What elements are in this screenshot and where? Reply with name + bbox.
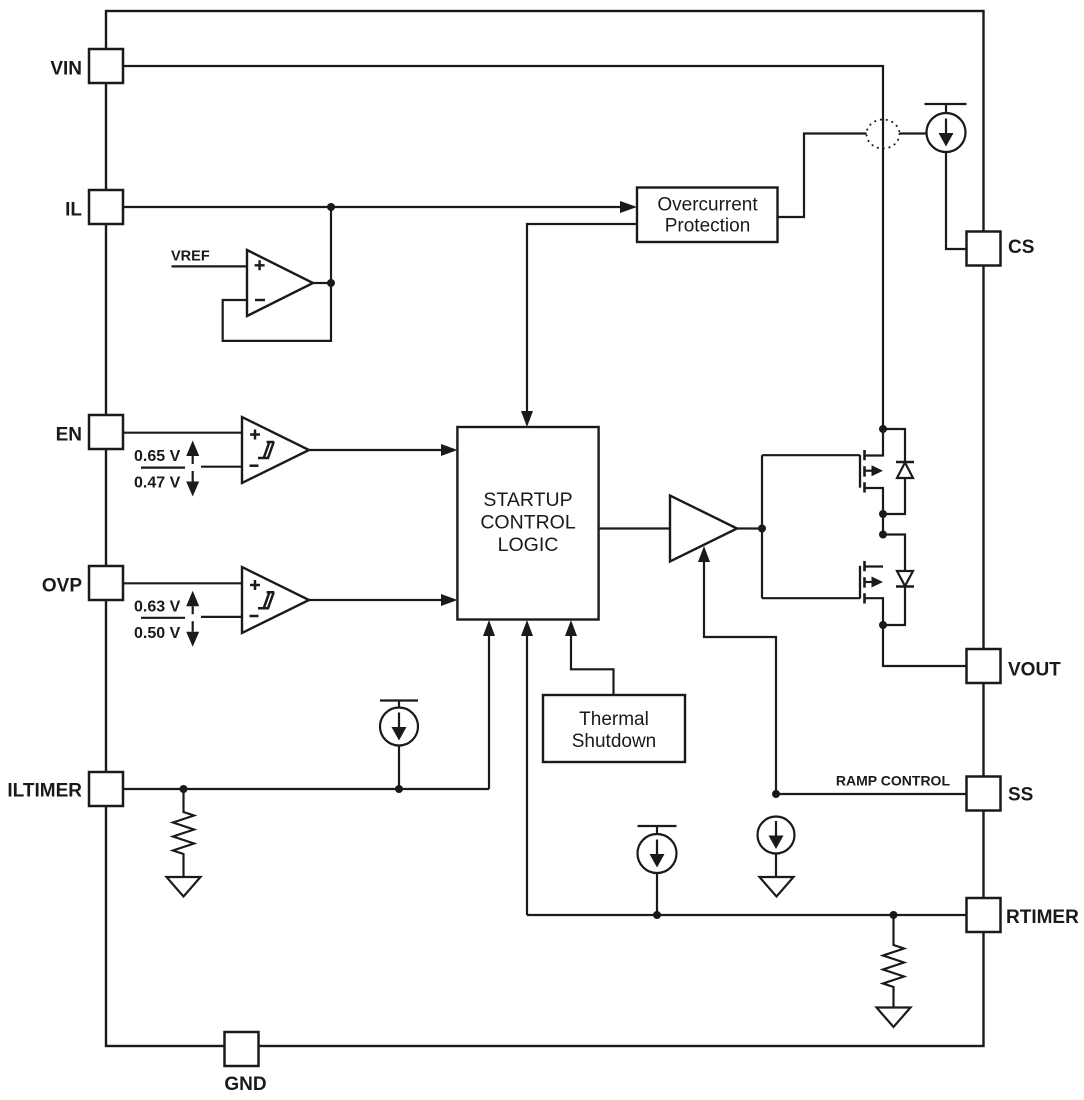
IC boundary — [106, 11, 984, 1046]
svg-text:OVP: OVP — [42, 576, 82, 597]
wire ILTIMER to startup logic — [123, 636, 489, 789]
wire ramp control to buffer — [704, 554, 776, 794]
current source I2 (ILTIMER) — [380, 701, 418, 708]
wire OVP threshold underline — [141, 617, 185, 619]
svg-text:RAMP CONTROL: RAMP CONTROL — [836, 773, 951, 789]
transistor Q1 (high-side FET) — [859, 455, 861, 488]
node gate drive junction — [758, 525, 766, 533]
svg-text:CS: CS — [1008, 237, 1034, 258]
comparator U3 (OVP) — [242, 567, 309, 633]
pin IL — [89, 190, 123, 224]
svg-text:RTIMER: RTIMER — [1006, 907, 1079, 928]
wire VIN to Q1 drain — [123, 66, 883, 456]
svg-text:0.50 V: 0.50 V — [134, 625, 181, 642]
wire EN comparator output to startup logic — [309, 449, 441, 451]
resistor R2 (RTIMER) — [883, 915, 904, 1008]
wire OVP to comparator + — [123, 582, 242, 584]
svg-text:0.65 V: 0.65 V — [134, 448, 181, 465]
pin ILTIMER — [89, 772, 123, 806]
wire IL to overcurrent protection — [123, 206, 620, 208]
wire overcurrent protection to startup logic top — [527, 224, 637, 411]
current source I3 (SS ramp) — [758, 817, 795, 854]
ground (below R1) — [167, 877, 201, 897]
arrow up (EN rising threshold) — [186, 441, 199, 457]
startup control logic block — [457, 427, 598, 620]
wire RTIMER — [527, 914, 967, 916]
pin CS — [967, 232, 1001, 266]
overcurrent protection block — [637, 188, 778, 243]
svg-text:IL: IL — [65, 200, 82, 221]
svg-text:VIN: VIN — [50, 59, 82, 80]
wire startup logic to gate buffer — [599, 527, 670, 529]
svg-text:Shutdown: Shutdown — [572, 731, 657, 752]
node U1 output junction — [327, 279, 335, 287]
pin EN — [89, 415, 123, 449]
svg-text:0.63 V: 0.63 V — [134, 598, 181, 615]
svg-text:Overcurrent: Overcurrent — [657, 195, 758, 216]
svg-text:VOUT: VOUT — [1008, 660, 1061, 681]
op-amp U1 (VREF buffer) — [247, 250, 313, 316]
ground (below R2) — [877, 1008, 911, 1028]
node ILTIMER resistor junction — [180, 785, 188, 793]
svg-text:CONTROL: CONTROL — [480, 512, 575, 534]
current source I4 (RTIMER) — [638, 826, 677, 834]
svg-text:GND: GND — [224, 1074, 266, 1095]
comparator U2 (EN) — [242, 417, 309, 483]
arrow down (OVP falling threshold) — [192, 621, 194, 632]
wire buffer output to gate node — [737, 527, 762, 529]
node RTIMER resistor junction — [890, 911, 898, 919]
wire OVP comparator - input — [201, 616, 242, 618]
wire EN threshold underline — [141, 467, 185, 469]
svg-text:SS: SS — [1008, 785, 1033, 806]
pin GND — [225, 1032, 259, 1066]
node crossover (dotted circle) — [867, 120, 900, 149]
wire U1 feedback loop — [223, 283, 331, 341]
node Q1 source — [879, 510, 887, 518]
svg-text:EN: EN — [56, 425, 82, 446]
pin SS — [967, 777, 1001, 811]
diode D2 (Q2 body diode) — [883, 535, 905, 626]
svg-text:ILTIMER: ILTIMER — [7, 781, 82, 802]
node Q2 source — [879, 531, 887, 539]
wire VREF input — [172, 265, 248, 267]
svg-text:Thermal: Thermal — [579, 709, 649, 730]
wire overcurrent protection output to current source — [778, 134, 927, 218]
wire OVP comparator output to startup logic — [309, 599, 441, 601]
transistor Q2 (low-side FET) — [859, 566, 861, 599]
wire EN to comparator + — [123, 432, 242, 434]
node ILTIMER current source junction — [395, 785, 403, 793]
svg-text:Protection: Protection — [665, 216, 751, 237]
svg-text:LOGIC: LOGIC — [498, 534, 559, 556]
arrow down (EN falling threshold) — [192, 471, 194, 482]
current source I1 (CS) — [925, 104, 967, 113]
pin RTIMER — [967, 898, 1001, 932]
wire U1 output to IL net — [313, 207, 331, 283]
pin VIN — [89, 49, 123, 83]
node RTIMER current source junction — [653, 911, 661, 919]
wire current source to CS pin — [946, 152, 967, 249]
node SS junction — [772, 790, 780, 798]
gate buffer U4 — [670, 496, 737, 562]
node Q1 drain — [879, 425, 887, 433]
svg-text:0.47 V: 0.47 V — [134, 475, 181, 492]
pin VOUT — [967, 649, 1001, 683]
svg-text:VREF: VREF — [171, 249, 210, 265]
wire thermal shutdown to startup logic — [571, 636, 614, 695]
ground (below I3) — [760, 877, 794, 897]
wire gate drive to Q1/Q2 gates — [762, 455, 860, 598]
node Q2 drain — [879, 621, 887, 629]
thermal shutdown block — [543, 695, 685, 762]
diode D1 (Q1 body diode) — [883, 429, 905, 514]
wire RTIMER to startup logic — [526, 636, 528, 915]
wire EN comparator - input — [201, 466, 242, 468]
pin OVP — [89, 566, 123, 600]
node IL junction — [327, 203, 335, 211]
resistor R1 (ILTIMER) — [173, 789, 194, 877]
svg-text:STARTUP: STARTUP — [483, 489, 572, 511]
arrow up (OVP rising threshold) — [186, 591, 199, 607]
wire SS (ramp) — [776, 793, 967, 795]
